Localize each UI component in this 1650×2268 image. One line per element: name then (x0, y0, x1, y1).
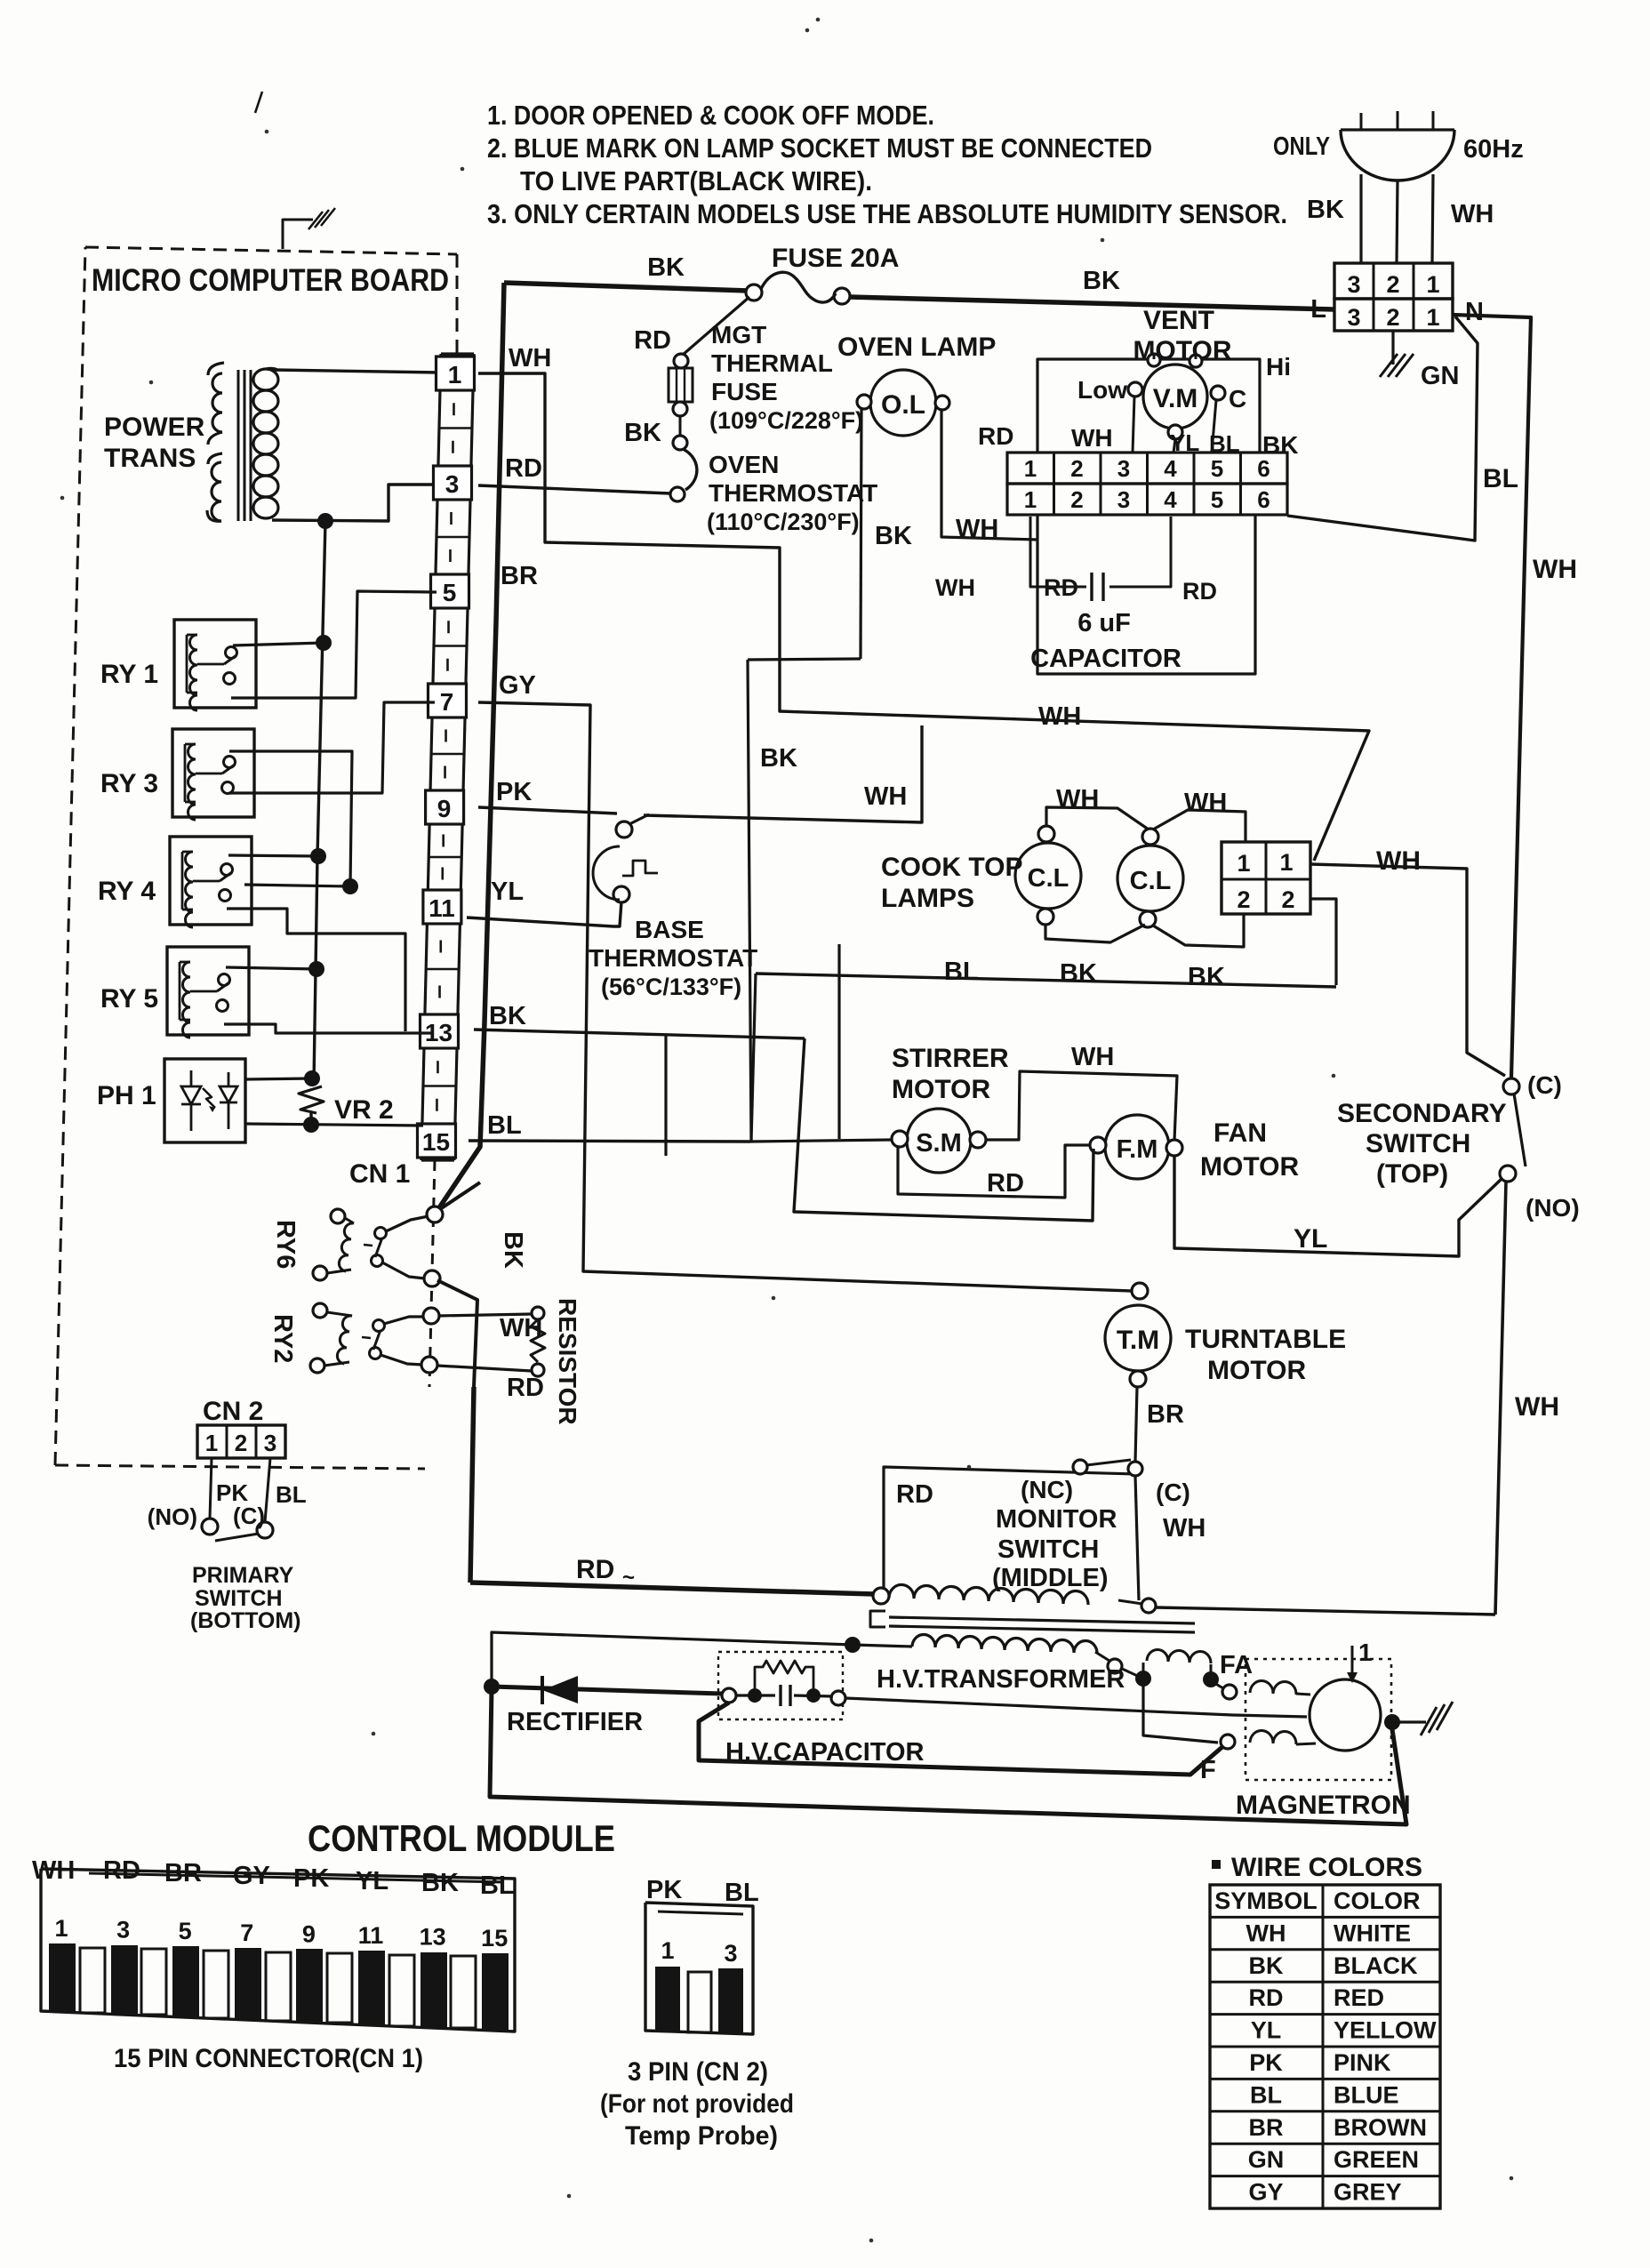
svg-text:WH: WH (32, 1856, 75, 1885)
svg-text:F.M: F.M (1117, 1135, 1158, 1164)
wire: secondary bottom to CN1 pin3 (272, 485, 437, 521)
svg-text:RY 1: RY 1 (100, 660, 158, 689)
svg-text:1: 1 (1279, 849, 1293, 876)
svg-text:RESISTOR: RESISTOR (554, 1298, 581, 1425)
svg-text:BL: BL (944, 958, 979, 986)
wire WH: O.L right down then right (941, 410, 1037, 540)
svg-text:RY2: RY2 (268, 1314, 297, 1363)
magnetron top filament coil (1250, 1680, 1296, 1695)
wire BL: connector 2 right down to long BL run (1310, 899, 1336, 985)
svg-text:(C): (C) (1527, 1071, 1562, 1099)
wire RD: CN1 pin3 to thermostat (478, 485, 670, 493)
svg-text:2: 2 (1070, 486, 1083, 513)
svg-text:PK: PK (646, 1876, 682, 1904)
power transformer secondary winding (253, 369, 278, 390)
svg-text:(For not provided: (For not provided (600, 2089, 794, 2119)
relay coil RY2 (313, 1303, 327, 1318)
svg-text:2: 2 (235, 1430, 247, 1456)
svg-text:MOTOR: MOTOR (1207, 1356, 1306, 1385)
relay coil RY6 (331, 1209, 345, 1223)
wire: RY5 bottom contact to CN1 pin13 (224, 1024, 433, 1033)
scan specks (decorative) (805, 28, 810, 33)
svg-text:WH: WH (1533, 555, 1577, 584)
wire: capacitor right to filament F circuit (845, 1698, 1307, 1717)
svg-text:TURNTABLE: TURNTABLE (1185, 1325, 1346, 1354)
svg-text:3: 3 (724, 1940, 737, 1967)
CN1 pin 4 bar (open) (141, 1949, 166, 2015)
svg-text:BR: BR (501, 562, 538, 590)
svg-text:3: 3 (445, 470, 460, 498)
svg-text:GY: GY (499, 671, 536, 700)
cook top lamp C.L 2 (1117, 845, 1183, 911)
svg-text:BK: BK (760, 744, 797, 773)
secondary switch (NO) terminal (1500, 1166, 1516, 1182)
svg-text:(110°C/230°F): (110°C/230°F) (707, 509, 860, 535)
svg-text:MONITOR: MONITOR (996, 1505, 1117, 1534)
svg-text:RD: RD (634, 326, 671, 355)
noise-suppressor squiggle (283, 220, 313, 249)
svg-text:GY: GY (1248, 2179, 1283, 2206)
svg-text:BR: BR (1249, 2114, 1284, 2141)
svg-text:WH: WH (1163, 1514, 1205, 1543)
svg-text:RD: RD (103, 1856, 140, 1885)
ground GN (1391, 331, 1394, 365)
svg-text:WH: WH (956, 515, 998, 543)
CN1 cells between pin 1 and 3 (439, 427, 472, 429)
svg-text:YELLOW: YELLOW (1334, 2017, 1437, 2044)
HV transformer primary coil (889, 1584, 1088, 1605)
wire: monitor (C) down right edge (1135, 1476, 1139, 1600)
wire: PH1 bottom / VR2 bottom to CN1 pin15 (245, 1124, 423, 1126)
svg-text:Low: Low (1077, 376, 1127, 404)
wire BL/BK long run under lamps (756, 974, 1336, 987)
svg-text:RD: RD (1182, 578, 1217, 605)
power transformer primary winding (208, 363, 224, 375)
wire: fuse to thermal fuse (683, 297, 749, 355)
svg-text:LAMPS: LAMPS (881, 884, 974, 913)
power transformer core (237, 370, 240, 521)
svg-text:FUSE 20A: FUSE 20A (772, 244, 899, 273)
wire: monitor coil right end (1141, 1599, 1156, 1613)
svg-text:S.M: S.M (916, 1129, 962, 1158)
svg-text:5: 5 (1211, 455, 1223, 482)
CN1 pin 7 bar (235, 1948, 261, 2019)
svg-text:ONLY: ONLY (1273, 132, 1330, 161)
wire: CN2 pin3 down to (C) (265, 1458, 270, 1522)
CN1 pin 2 bar (open) (80, 1948, 105, 2013)
junction RY6 top (427, 1206, 443, 1222)
svg-text:RD: RD (507, 1374, 544, 1402)
svg-text:BK: BK (1307, 196, 1344, 224)
svg-text:COOK TOP: COOK TOP (881, 853, 1022, 882)
plug prong wires (1359, 174, 1362, 263)
wire: BK vent connector col5 corner (O.L black) (748, 659, 861, 660)
CN1 cells between pin 5 and 7 (434, 645, 467, 647)
svg-text:6: 6 (1257, 486, 1270, 513)
optocoupler PH1 (164, 1059, 245, 1142)
wire: RY2 top junction to resistor top (439, 1314, 532, 1316)
svg-text:POWER: POWER (104, 413, 205, 442)
svg-text:BK: BK (421, 1869, 459, 1897)
wire: secondary top to CN1 pin1 (274, 370, 439, 373)
HV transformer core (870, 1611, 885, 1627)
svg-text:WH: WH (1515, 1392, 1559, 1422)
wire: RY6 contacts to CN1 junctions (386, 1216, 429, 1231)
HV capacitor terminals (722, 1688, 736, 1703)
RY2 contacts (373, 1320, 385, 1332)
scratch mark (255, 92, 262, 113)
svg-text:TRANS: TRANS (104, 444, 196, 473)
CN1 cells between pin 13 and 15 (423, 1085, 456, 1087)
svg-text:3: 3 (264, 1430, 276, 1456)
svg-text:CN 1: CN 1 (349, 1159, 410, 1189)
CN1 cells between pin 9 and 11 (429, 856, 461, 859)
CN1 pin 1 bar (49, 1943, 76, 2011)
svg-text:YL: YL (1294, 1224, 1327, 1254)
wire: filament link from HV dot (1143, 1684, 1218, 1743)
turntable motor T.M (1132, 1283, 1148, 1299)
oven lamp O.L (870, 370, 936, 436)
svg-text:MOTOR: MOTOR (1200, 1152, 1299, 1182)
svg-text:T.M: T.M (1117, 1326, 1159, 1355)
svg-text:WH: WH (500, 1314, 542, 1342)
svg-text:1: 1 (1426, 271, 1439, 298)
wire WH: (NO) down to HV transformer (1495, 1182, 1506, 1615)
3 pin connector outline (645, 1903, 753, 2034)
oven thermostat (673, 436, 687, 450)
svg-text:FUSE: FUSE (711, 378, 778, 405)
fan motor F.M (1105, 1115, 1169, 1179)
varistor VR2 (299, 1086, 324, 1113)
svg-text:RD: RD (505, 454, 542, 483)
svg-text:BK: BK (1188, 963, 1225, 991)
CN1 pin 8 bar (open) (266, 1952, 291, 2021)
svg-text:RED: RED (1334, 1984, 1384, 2011)
terminal block 3-2-1 (1334, 263, 1453, 299)
wire: thick BK vertical from fuse junction down (435, 283, 504, 1214)
svg-text:C.L: C.L (1130, 867, 1172, 895)
wire: pin15 BL run to S.M left (750, 1140, 892, 1142)
wire BR: T.M to monitor switch (C) (1135, 1387, 1137, 1462)
resistor (RY2 load) (532, 1307, 544, 1319)
primary switch (NO) terminal (202, 1519, 218, 1535)
CN1 pin 11 box (423, 890, 461, 924)
svg-text:PK: PK (496, 778, 532, 806)
base thermostat (616, 821, 632, 837)
HV transformer primary terminal (873, 1588, 889, 1604)
svg-text:5: 5 (179, 1918, 192, 1944)
svg-text:C: C (1229, 385, 1246, 413)
wire BR: pin5 riser to F.M left (794, 1038, 1093, 1221)
CN1 pin 3 bar (111, 1945, 138, 2014)
CN1 pin 7 box (429, 684, 467, 717)
svg-text:BLACK: BLACK (1334, 1952, 1418, 1979)
rectifier box left/top edges (492, 1632, 853, 1687)
svg-text:WH: WH (1451, 200, 1494, 228)
svg-text:BL: BL (725, 1879, 759, 1907)
CN1 pin 13 bar (421, 1952, 447, 2027)
HV filament winding FA (1147, 1649, 1211, 1663)
svg-text:YL: YL (1251, 2017, 1282, 2044)
svg-text:RY 4: RY 4 (98, 877, 156, 906)
HV transformer secondary coil (912, 1634, 1097, 1654)
HV capacitor plates (779, 1685, 781, 1706)
wire: secondary to filament (1120, 1668, 1143, 1679)
svg-text:SWITCH: SWITCH (997, 1535, 1099, 1564)
wire: resistor bottom to RY2 bottom junction (437, 1366, 532, 1371)
svg-text:SYMBOL: SYMBOL (1214, 1887, 1318, 1914)
CN1 pin 3 box (434, 466, 472, 500)
svg-text:6: 6 (1257, 455, 1270, 482)
magnetron ground dot (1384, 1714, 1400, 1730)
svg-text:VR 2: VR 2 (334, 1095, 394, 1125)
CN1 pin 13 box (421, 1014, 459, 1048)
svg-text:GY: GY (233, 1862, 270, 1890)
CN1 pin 10 bar (open) (327, 1953, 352, 2023)
svg-text:YL: YL (491, 878, 524, 906)
svg-text:3: 3 (116, 1917, 130, 1943)
svg-text:H.V.TRANSFORMER: H.V.TRANSFORMER (877, 1665, 1125, 1694)
svg-text:PK: PK (293, 1864, 329, 1893)
HV capacitor bleed resistor (755, 1661, 813, 1688)
CN1 pin 9 bar (296, 1949, 323, 2022)
svg-text:WH: WH (1071, 1043, 1114, 1071)
secondary switch blade (1514, 1094, 1526, 1166)
capacitor 6uF plates (1090, 573, 1093, 601)
CN1 pin 15 bar (482, 1953, 509, 2030)
svg-text:SWITCH: SWITCH (195, 1586, 283, 1611)
svg-text:2: 2 (1386, 271, 1399, 298)
CN1 pin 14 bar (open) (451, 1956, 476, 2028)
vent connector 1-6 (1007, 453, 1287, 484)
magnetron tube (1310, 1679, 1381, 1751)
HV capacitor dotted box (718, 1652, 843, 1719)
svg-text:WH: WH (1071, 424, 1113, 452)
svg-text:BR: BR (164, 1859, 202, 1887)
wire RD: S.M left to F.M left (898, 1145, 1090, 1198)
CN1 dashed line below strip (429, 1160, 435, 1387)
junction dot on bus A (317, 513, 333, 529)
CN1 pin 12 bar (open) (389, 1955, 414, 2026)
svg-text:11: 11 (429, 894, 455, 922)
svg-text:7: 7 (440, 688, 454, 716)
rectifier wire (484, 1679, 500, 1695)
svg-text:RD: RD (987, 1169, 1024, 1198)
wire F: capacitor left down to magnetron filament (699, 1703, 1223, 1775)
wire: C.L1 top bridge to C.L2 top (1046, 807, 1149, 829)
wire YL: CN1 pin11 to base thermostat bottom (467, 902, 621, 926)
svg-text:BL: BL (480, 1871, 515, 1900)
svg-text:F: F (1200, 1756, 1216, 1784)
svg-text:MICRO COMPUTER BOARD: MICRO COMPUTER BOARD (92, 263, 449, 298)
svg-text:RD: RD (1044, 574, 1078, 601)
wire PK: CN1 pin9 to base thermostat and WH riser (478, 807, 617, 813)
svg-text:2: 2 (1281, 886, 1294, 913)
wire: C.L1 bottom bridge to C.L2 bottom (1045, 925, 1145, 942)
magnetron bottom filament coil (1221, 1735, 1235, 1749)
svg-text:BK: BK (875, 522, 912, 550)
wire BK: CN1 pin13 right (474, 1030, 805, 1038)
svg-text:O.L: O.L (881, 390, 925, 420)
svg-text:THERMAL: THERMAL (711, 349, 833, 377)
wire GY: CN1 pin7 to turntable motor (478, 702, 1131, 1291)
3 pin bars (655, 1967, 680, 2032)
secondary switch (C) terminal (1503, 1078, 1519, 1094)
svg-text:15: 15 (481, 1925, 508, 1951)
thick vertical to RD wire (470, 1387, 474, 1583)
svg-text:RD: RD (896, 1480, 933, 1509)
svg-text:1: 1 (54, 1915, 68, 1942)
svg-text:3: 3 (1347, 271, 1360, 298)
svg-text:THERMOSTAT: THERMOSTAT (709, 479, 877, 507)
svg-text:PH 1: PH 1 (97, 1081, 156, 1110)
15 pin connector outline (41, 1869, 515, 2032)
vent motor box (1037, 359, 1260, 453)
svg-text:6 uF: 6 uF (1077, 609, 1131, 637)
wire BL: CN1 pin15 right (469, 1141, 750, 1142)
svg-text:STIRRER: STIRRER (892, 1044, 1009, 1073)
MGT thermal fuse (674, 354, 688, 368)
wire: RY1 bottom contact to CN1 pin5 (231, 591, 437, 698)
svg-text:(56°C/133°F): (56°C/133°F) (601, 974, 741, 1000)
vent motor V.M (1143, 365, 1207, 429)
svg-text:BK: BK (647, 253, 685, 282)
svg-text:13: 13 (420, 1924, 446, 1951)
fuse 20A (746, 285, 762, 301)
wire: RY2 contacts to CN1 junctions (384, 1317, 424, 1324)
stirrer motor S.M (907, 1109, 971, 1173)
svg-text:WH: WH (1246, 1919, 1286, 1946)
svg-text:2: 2 (1070, 455, 1083, 482)
svg-text:N: N (1465, 298, 1484, 326)
svg-text:BL: BL (487, 1111, 522, 1140)
svg-text:GN: GN (1248, 2146, 1285, 2173)
svg-text:WH: WH (509, 344, 551, 373)
svg-text:WH: WH (935, 574, 975, 601)
svg-text:BASE: BASE (635, 916, 704, 943)
wire BL: N corner down to vent connector (1287, 317, 1478, 541)
svg-text:BL: BL (276, 1481, 307, 1508)
svg-text:(BOTTOM): (BOTTOM) (190, 1608, 301, 1633)
relay RY4 (170, 837, 252, 925)
svg-text:GREEN: GREEN (1334, 2146, 1419, 2173)
svg-text:9: 9 (437, 795, 452, 822)
bus A vertical (power trans common) (314, 521, 325, 1083)
svg-text:BK: BK (1083, 267, 1120, 295)
svg-text:60Hz: 60Hz (1463, 135, 1524, 164)
svg-text:BK: BK (499, 1231, 527, 1269)
svg-text:RD: RD (576, 1555, 614, 1584)
svg-text:1: 1 (448, 361, 462, 389)
svg-text:PINK: PINK (1334, 2049, 1391, 2076)
svg-text:Hi: Hi (1266, 353, 1291, 381)
monitor switch box (884, 1467, 1135, 1590)
svg-text:2: 2 (1237, 886, 1250, 913)
RY6 contacts (375, 1228, 387, 1239)
svg-text:15 PIN CONNECTOR(CN 1): 15 PIN CONNECTOR(CN 1) (114, 2044, 423, 2073)
wire: coil right to WH riser (1156, 1607, 1495, 1615)
svg-text:MGT: MGT (711, 321, 766, 349)
monitor switch contacts (1073, 1460, 1087, 1474)
svg-text:CN 2: CN 2 (203, 1397, 263, 1426)
wire: BK fuse to terminal block L (849, 297, 1334, 309)
svg-text:4: 4 (1164, 455, 1177, 482)
wire: junction to main vertical (440, 1182, 480, 1209)
capacitor 6uF leads (1030, 517, 1086, 587)
label WIRE COLORS (1212, 1860, 1221, 1869)
svg-text:3: 3 (1117, 486, 1130, 513)
CN1 pin 11 bar (358, 1951, 385, 2024)
AC plug (1341, 130, 1454, 180)
wire: thermal fuse to thermostat (679, 416, 682, 436)
svg-text:3: 3 (1117, 455, 1130, 482)
micro computer board dashed box (85, 247, 457, 254)
CN1 pin 9 box (426, 790, 464, 824)
svg-text:1: 1 (1024, 455, 1037, 482)
svg-text:FAN: FAN (1213, 1118, 1267, 1148)
svg-text:V.M: V.M (1153, 384, 1198, 413)
svg-text:(109°C/228°F): (109°C/228°F) (709, 407, 863, 434)
svg-text:1. DOOR OPENED & COOK OFF MODE: 1. DOOR OPENED & COOK OFF MODE. (487, 100, 934, 131)
wire WH: CN1 pin1 long route to cook top connector (478, 373, 1369, 861)
svg-text:BROWN: BROWN (1334, 2114, 1427, 2141)
svg-text:SWITCH: SWITCH (1366, 1129, 1470, 1158)
svg-text:GREY: GREY (1334, 2179, 1402, 2206)
svg-text:MAGNETRON: MAGNETRON (1236, 1791, 1411, 1820)
svg-text:BR: BR (1147, 1400, 1184, 1429)
wire: RY4 bottom contact step to pin13 riser (227, 909, 405, 1031)
magnetron anode arrow 1 (1351, 1646, 1354, 1679)
svg-text:RY 5: RY 5 (100, 984, 158, 1014)
svg-text:(C): (C) (233, 1503, 265, 1529)
relay RY1 (174, 620, 256, 708)
wire WH: connector 1 right to (C) (1310, 864, 1505, 1076)
svg-text:RY 3: RY 3 (100, 769, 158, 798)
svg-text:COLOR: COLOR (1334, 1887, 1421, 1914)
CN1 pin 5 bar (172, 1946, 199, 2016)
magnetron dotted box (1246, 1659, 1391, 1780)
cook top lamp C.L 1 (1015, 843, 1081, 909)
CN1 cells between pin 11 and 13 (426, 968, 459, 971)
CN1 pin 5 box (431, 574, 469, 608)
svg-text:2. BLUE MARK ON LAMP SOCKET MU: 2. BLUE MARK ON LAMP SOCKET MUST BE CONN… (487, 132, 1152, 164)
svg-text:THERMOSTAT: THERMOSTAT (589, 944, 757, 972)
svg-text:WH: WH (1038, 702, 1081, 731)
svg-text:4: 4 (1164, 486, 1177, 513)
svg-text:BK: BK (1249, 1952, 1284, 1979)
junction RY6 bottom (424, 1270, 440, 1286)
svg-text:1: 1 (661, 1937, 674, 1964)
wire YL: F.M right to secondary switch (NO) (1174, 1155, 1502, 1256)
wire: RY5 top contact to bus A (226, 967, 316, 969)
svg-text:1: 1 (1024, 486, 1037, 513)
CN1 pin 1 box (437, 357, 475, 390)
wire: RY3 bottom contact to CN1 pin7 (229, 702, 435, 793)
svg-text:(NC): (NC) (1021, 1476, 1073, 1503)
CN1 cells between pin 7 and 9 (431, 753, 464, 756)
wire BK: O.L left down (861, 409, 861, 659)
svg-text:2: 2 (1386, 304, 1399, 331)
primary switch blade (215, 1534, 259, 1541)
wire: RY4 top contact to bus A (228, 855, 318, 856)
svg-text:OVEN: OVEN (709, 451, 779, 478)
svg-text:BK: BK (1060, 959, 1097, 988)
svg-text:15: 15 (422, 1128, 450, 1156)
svg-text:5: 5 (1211, 486, 1223, 513)
wire: RY6 bottom junction to thick vertical (437, 1280, 477, 1387)
svg-text:1: 1 (1237, 850, 1250, 877)
svg-text:5: 5 (443, 579, 457, 606)
